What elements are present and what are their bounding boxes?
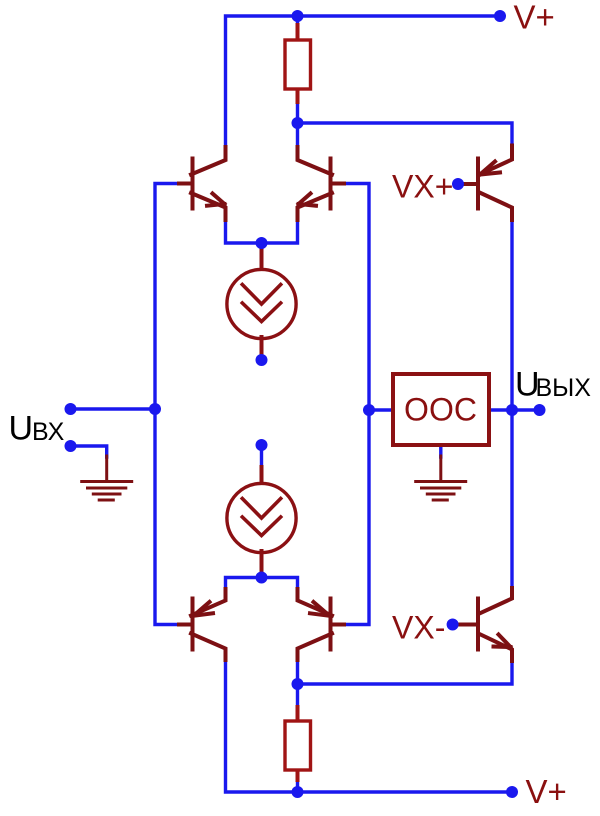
node I1 lower terminal (256, 354, 268, 366)
node VX+ base terminal (452, 178, 464, 190)
node V+ terminal (top) (494, 10, 506, 22)
node top rail / R1 junction (292, 10, 304, 22)
transistor VT4 (bottom right) (298, 589, 345, 660)
wire input Uin lower lead to ground (71, 446, 107, 457)
transistor VT3 (bottom left) (179, 589, 226, 660)
wire bottom emitters joining bus (226, 578, 298, 590)
transistor VX+ (top output follower) (459, 146, 512, 221)
svg-text:VX+: VX+ (392, 169, 453, 205)
transistor VT1 (top left) (179, 147, 226, 220)
node V+ terminal (bottom) (506, 786, 518, 798)
wire OOC left lead (369, 408, 393, 411)
current source I1 (top) (227, 250, 296, 356)
wire top emitters joining bus (226, 220, 298, 244)
current source I2 (bottom) (227, 467, 296, 572)
wire OOC ground stub (blue part) (439, 446, 442, 457)
node bottom rail / R2 junction (292, 786, 304, 798)
resistor R2 (285, 707, 311, 780)
svg-text:V+: V+ (514, 0, 555, 36)
node middle rail / OOC junction (363, 404, 375, 416)
wire current source I1 terminals (260, 243, 263, 360)
node Uin upper terminal (65, 403, 77, 415)
wire bottom rail V+ with left riser from VT3 collector (226, 660, 513, 793)
transistor VX- (bottom output follower) (455, 588, 512, 661)
wire R1 bottom node: horizontal run to VX+ emitter riser and down to VT2 collector (298, 16, 513, 147)
node left rail / input junction (149, 403, 161, 415)
wire R2 bottom stub (296, 780, 299, 792)
ground (input) (82, 456, 132, 500)
resistor R1 (285, 25, 311, 102)
wire top rail V+ with left riser to VT1 collector (226, 16, 501, 147)
svg-text:ООС: ООС (404, 392, 477, 428)
wire current source I2 terminals (260, 445, 263, 578)
svg-text:U: U (9, 410, 34, 448)
wire input Uin upper lead (71, 407, 156, 410)
wire VT4 collector drop (296, 660, 299, 685)
svg-text:VX-: VX- (392, 610, 445, 646)
svg-text:ВХ: ВХ (32, 418, 65, 446)
svg-text:V+: V+ (526, 773, 567, 810)
svg-text:ВЫХ: ВЫХ (536, 374, 592, 402)
OOC feedback block (393, 374, 489, 445)
wire middle rail (VT2 base to VT4 base, OOC tap) (344, 184, 370, 625)
node I2 upper terminal (256, 439, 268, 451)
wire OOC right lead and output stub (489, 408, 540, 411)
node bottom emitters junction (256, 572, 268, 584)
node Uout terminal (534, 404, 546, 416)
wire left rail (VT1 base to VT3 base, input tap) (155, 184, 181, 625)
wire right output column VX+ collector to VX- collector (510, 220, 513, 589)
node VX- emitter / R2 junction (292, 678, 304, 690)
node output column / OOC junction (506, 404, 518, 416)
node R1 bottom junction (292, 117, 304, 129)
node VX- base terminal (447, 619, 459, 631)
wire VX- emitter drop and bottom horizontal run to node (298, 661, 513, 708)
node Uin lower terminal (65, 440, 77, 452)
node top emitters junction (256, 237, 268, 249)
ground (OOC) (416, 456, 466, 500)
transistor VT2 (top right) (298, 147, 345, 220)
